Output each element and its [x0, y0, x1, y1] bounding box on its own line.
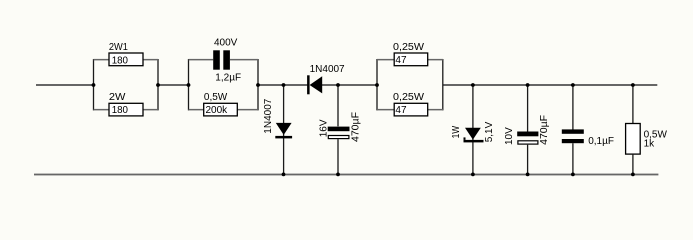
diode D3 (zener 1W 5,1V): [451, 85, 495, 174]
resistor R1 (2W1 180): [109, 42, 143, 67]
svg-text:0,25W: 0,25W: [393, 42, 425, 53]
svg-text:10V: 10V: [504, 127, 515, 145]
node Q: junction bottom of R6: [631, 173, 635, 177]
svg-text:0,1µF: 0,1µF: [588, 136, 614, 147]
node P: junction top of R6: [631, 83, 635, 87]
wire: R1 top branch leads: [94, 59, 110, 61]
node F: junction bottom of D1: [282, 173, 286, 177]
svg-text:180: 180: [112, 55, 129, 66]
wire: left vertical of C1/R3 group: [188, 59, 189, 110]
wire: C1 leads: [189, 59, 214, 61]
wire: right vertical of R1/R2 pair: [157, 59, 158, 110]
node E: junction top of D1: [282, 83, 286, 87]
wire: top rail from cap group to diode D2: [258, 84, 308, 86]
node L: junction top of C3: [526, 83, 530, 87]
capacitor C4 (0,1uF): [562, 85, 614, 174]
svg-text:180: 180: [112, 105, 129, 116]
svg-text:1W: 1W: [451, 125, 462, 138]
svg-text:1,2µF: 1,2µF: [215, 73, 241, 84]
node B: junction right of R pair: [156, 83, 160, 87]
capacitor C2 (16V 470uF electrolytic): [318, 85, 361, 174]
diode D2 (1N4007 horizontal): [307, 64, 345, 94]
node J: junction top of D3: [471, 83, 475, 87]
node I: junction left of R4/R5: [375, 83, 379, 87]
diode D1 (1N4007 vertical): [263, 85, 292, 174]
svg-text:5,1V: 5,1V: [484, 121, 495, 142]
node M: junction bottom of C3: [526, 173, 530, 177]
svg-text:200k: 200k: [206, 105, 229, 116]
node G: junction top of C2: [336, 83, 340, 87]
wire: left vertical of R4/R5 pair: [376, 59, 377, 110]
wire: R2 bottom branch leads: [94, 109, 110, 111]
svg-text:1N4007: 1N4007: [310, 64, 345, 75]
resistor R5 (0,25W 47): [393, 92, 428, 116]
wire: right vertical of C1/R3 group: [257, 59, 258, 110]
resistor R3 (0,5W 200k): [204, 92, 238, 116]
node N: junction top of C4: [571, 83, 575, 87]
svg-text:470µF: 470µF: [351, 112, 362, 142]
svg-text:0,5W: 0,5W: [204, 92, 228, 103]
wire: top rail right section: [443, 84, 657, 86]
wire: R4 leads: [377, 59, 394, 61]
wire: top rail input segment: [36, 84, 94, 86]
wire: R5 leads: [377, 109, 394, 111]
svg-text:47: 47: [395, 105, 407, 116]
node A: junction input / R pair: [92, 83, 96, 87]
node O: junction bottom of C4: [571, 173, 575, 177]
node C: junction left of cap group: [187, 83, 191, 87]
capacitor C1 (400V 1,2uF): [213, 37, 241, 83]
node K: junction bottom of D3: [471, 173, 475, 177]
resistor R6 (0,5W 1k vertical): [626, 85, 668, 174]
svg-text:1k: 1k: [644, 139, 656, 150]
node D: junction right of cap group: [256, 83, 260, 87]
wire: R3 leads: [189, 109, 204, 111]
wire: left vertical of R1/R2 pair: [93, 59, 94, 110]
svg-text:2W1: 2W1: [109, 42, 128, 53]
wire: right vertical of R4/R5 pair: [442, 59, 443, 110]
svg-text:1N4007: 1N4007: [263, 98, 274, 133]
capacitor C3 (10V 470uF electrolytic): [504, 85, 550, 174]
resistor R4 (0,25W 47): [393, 42, 428, 66]
svg-text:47: 47: [395, 55, 407, 66]
wire: top rail from D2 to 47-ohm pair: [322, 84, 378, 86]
svg-text:470µF: 470µF: [539, 115, 550, 145]
svg-text:0,25W: 0,25W: [393, 92, 425, 103]
resistor R2 (2W 180): [109, 92, 143, 116]
node H: junction bottom of C2: [336, 173, 340, 177]
svg-text:400V: 400V: [214, 37, 238, 48]
wire: top rail between resistor pair and cap group: [158, 84, 189, 86]
svg-text:16V: 16V: [318, 119, 329, 137]
wire: bottom rail: [34, 174, 658, 176]
svg-text:2W: 2W: [109, 92, 126, 103]
